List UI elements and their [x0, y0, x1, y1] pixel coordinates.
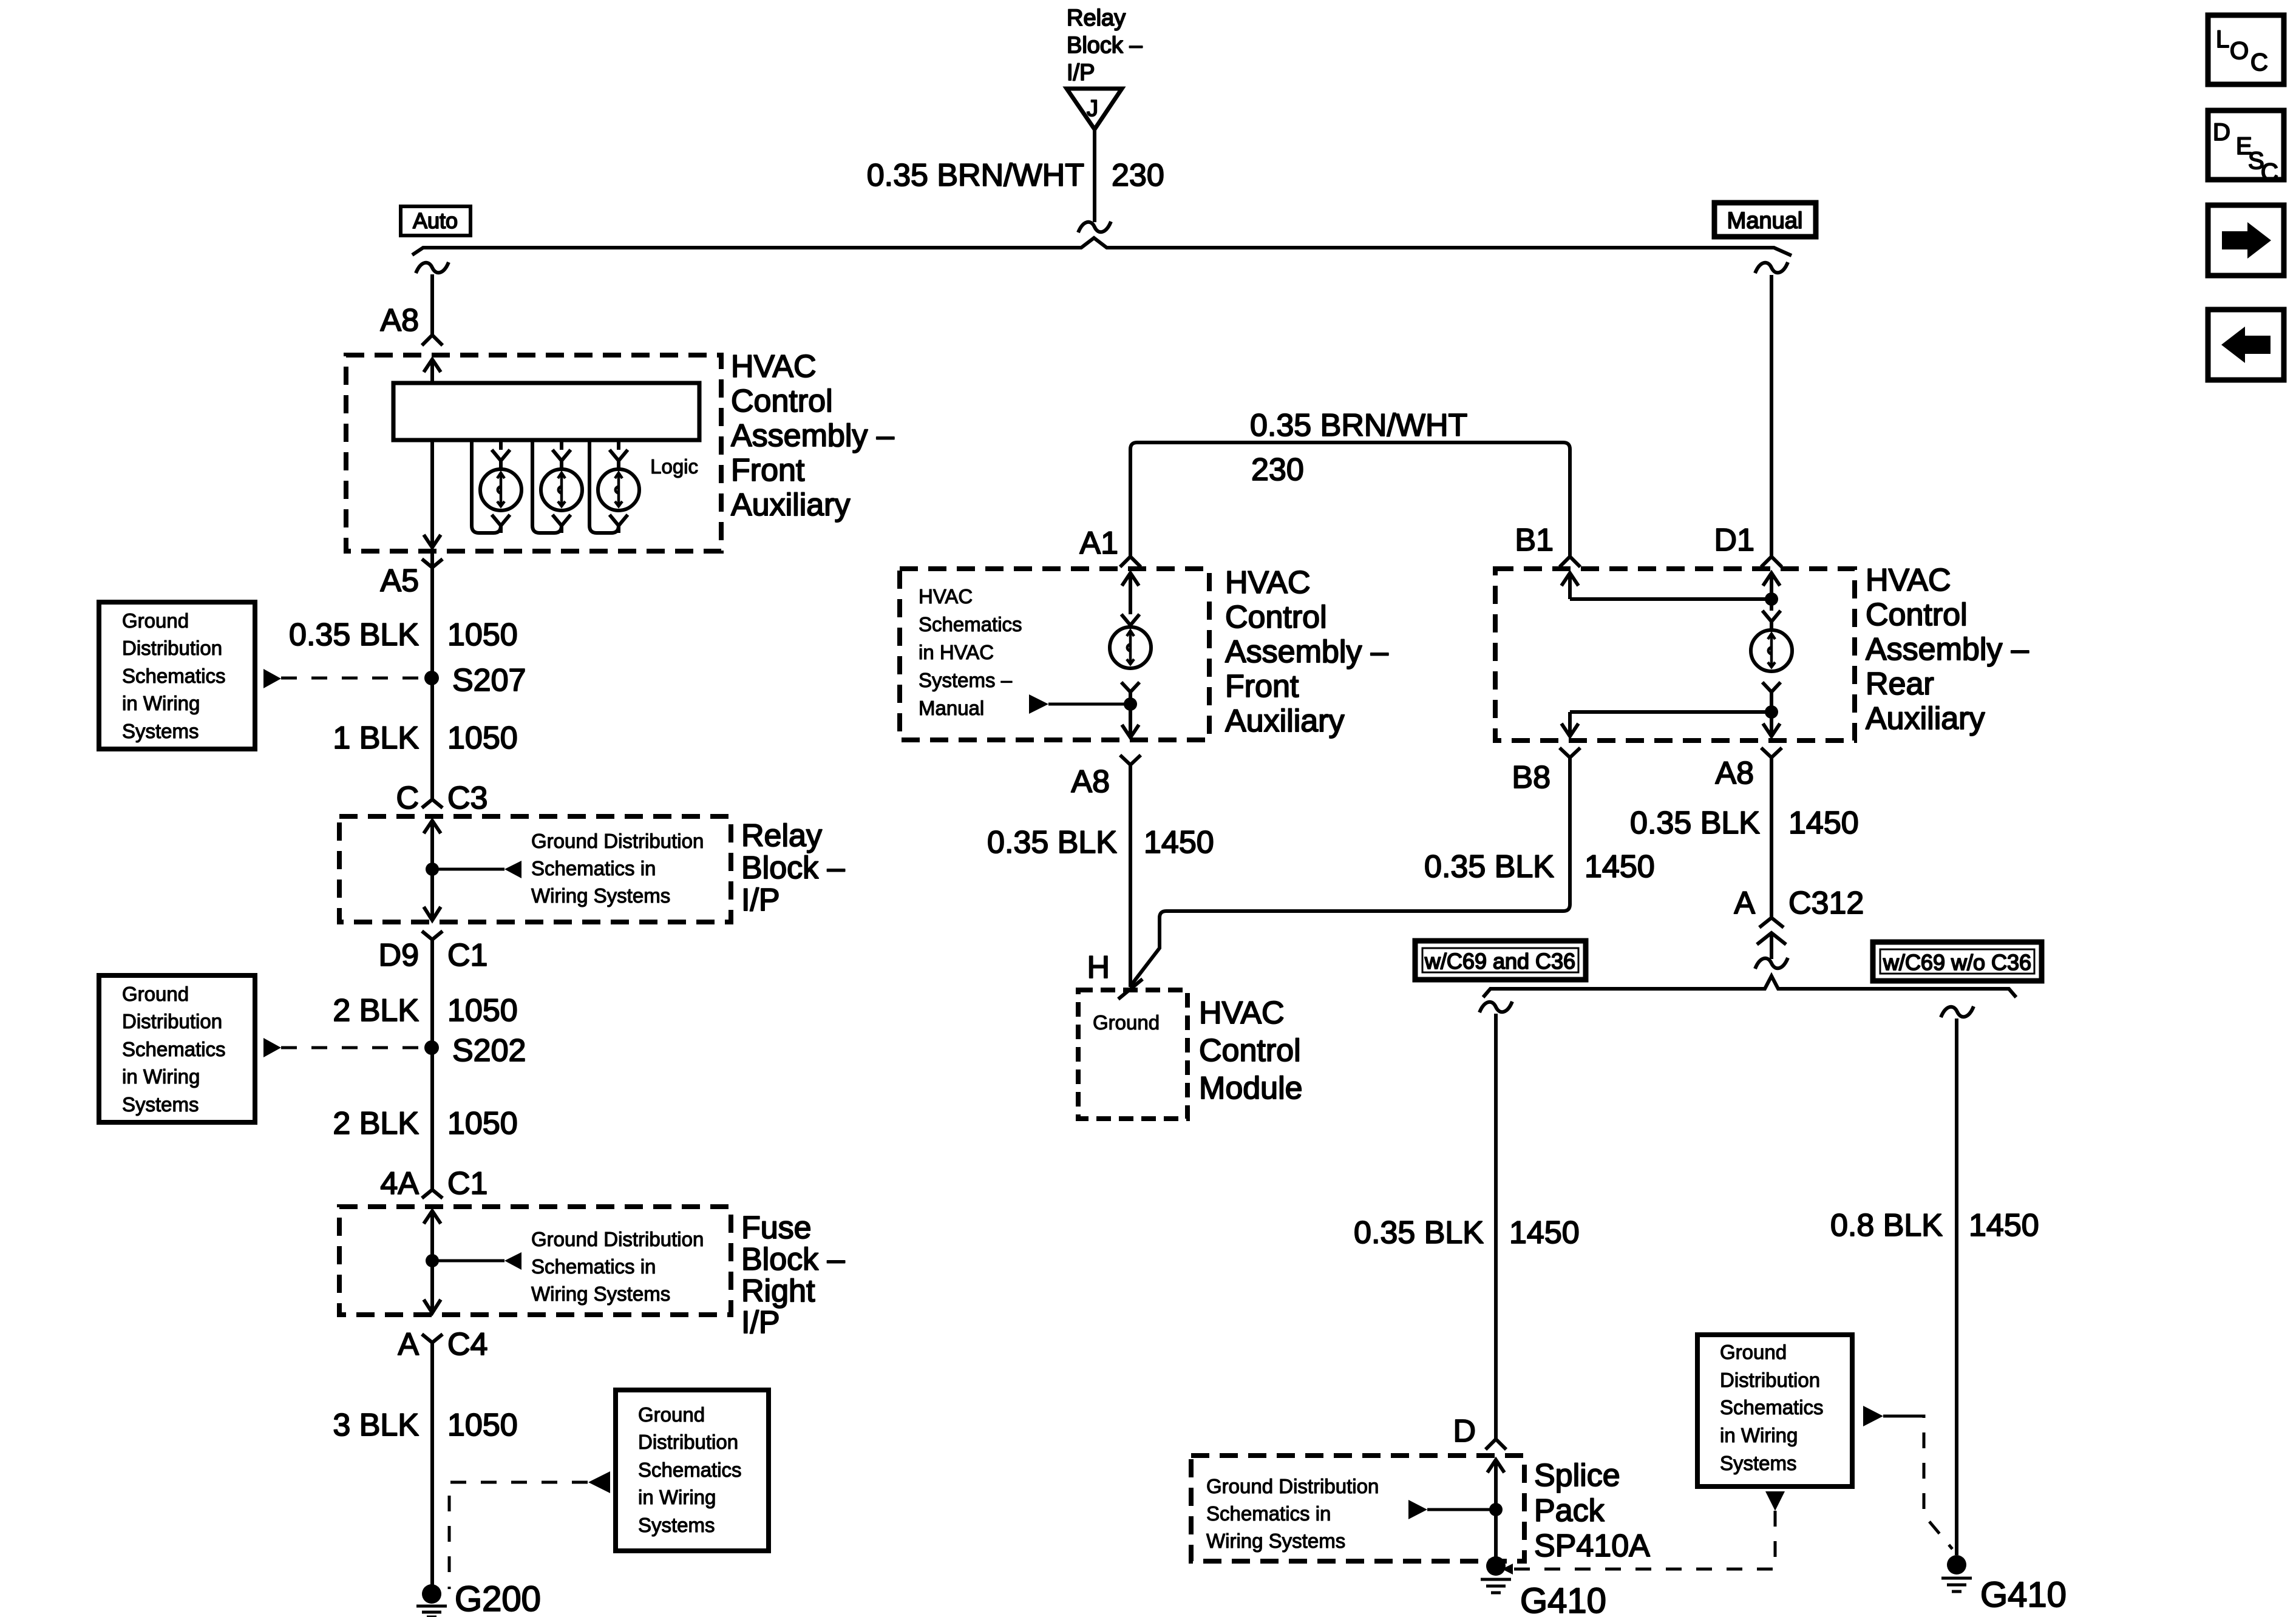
- wire left branch down to HVAC front aux: [430, 274, 434, 335]
- connector 4A C1: [422, 1190, 443, 1198]
- svg-text:in Wiring: in Wiring: [638, 1486, 716, 1508]
- label Fuse Block - Right I/P: [741, 1210, 845, 1340]
- svg-text:w/C69 and C36: w/C69 and C36: [1424, 949, 1575, 974]
- wire to reference arrow: [432, 868, 504, 871]
- icon DESC box: [2208, 110, 2284, 180]
- wire left split branch down to splice pack: [1494, 1014, 1498, 1439]
- junction dot (rear top): [1765, 592, 1778, 606]
- wire label 2 BLK 1050 (second): [333, 1106, 517, 1141]
- svg-text:1450: 1450: [1144, 825, 1214, 860]
- wire A8 rear down to C312: [1770, 758, 1773, 918]
- svg-text:D1: D1: [1714, 523, 1754, 558]
- arrow reference (splice pack): [1408, 1500, 1427, 1519]
- svg-text:I/P: I/P: [741, 883, 780, 918]
- svg-text:D: D: [2213, 119, 2230, 146]
- svg-text:C3: C3: [447, 781, 487, 816]
- wire label 1 BLK 1050: [333, 720, 517, 756]
- svg-text:Distribution: Distribution: [638, 1431, 738, 1453]
- wire A8 down to H: [1129, 765, 1132, 987]
- pin A8 (rear): [1761, 748, 1782, 758]
- svg-text:Schematics: Schematics: [122, 1038, 226, 1060]
- pin A1: [1079, 526, 1118, 561]
- svg-text:0.8 BLK: 0.8 BLK: [1830, 1208, 1943, 1243]
- wire main bus Auto/Manual: [412, 238, 1792, 256]
- svg-text:Logic: Logic: [650, 455, 698, 478]
- icon left arrow box: [2208, 310, 2284, 380]
- reference box Ground Distribution Schematics in Wiring Systems (G200): [616, 1390, 769, 1551]
- svg-text:1050: 1050: [447, 1106, 518, 1141]
- svg-text:Systems: Systems: [122, 720, 199, 742]
- wire lamp to junction: [1129, 692, 1132, 704]
- svg-text:Block –: Block –: [741, 850, 845, 886]
- svg-text:HVAC: HVAC: [1866, 563, 1951, 598]
- svg-text:1050: 1050: [447, 1408, 518, 1443]
- wire Manual branch down to D1: [1770, 275, 1773, 557]
- svg-text:1050: 1050: [447, 720, 518, 756]
- junction dot relay block: [426, 863, 439, 876]
- svg-text:Systems: Systems: [122, 1093, 199, 1116]
- svg-text:Ground: Ground: [122, 983, 189, 1005]
- wire label 2 BLK 1050: [333, 993, 517, 1028]
- svg-text:Systems –: Systems –: [919, 669, 1013, 691]
- wire D1 entry arrow: [1763, 573, 1780, 611]
- svg-text:in HVAC: in HVAC: [919, 641, 994, 663]
- svg-text:Ground: Ground: [638, 1403, 705, 1426]
- label HVAC Control Assembly - Front Auxiliary: [731, 349, 894, 523]
- svg-text:Control: Control: [731, 384, 833, 419]
- connector D9 C1: [422, 931, 443, 940]
- svg-text:Assembly –: Assembly –: [1225, 634, 1388, 670]
- wire reference line to junction: [1048, 703, 1130, 706]
- svg-text:A5: A5: [380, 563, 419, 598]
- svg-text:C312: C312: [1788, 886, 1864, 921]
- wire reference line to splice junction: [1427, 1508, 1496, 1511]
- break symbol right bus branch: [1755, 262, 1788, 273]
- svg-text:Ground: Ground: [1093, 1011, 1160, 1034]
- lamp rear aux: [1751, 630, 1792, 671]
- svg-text:Control: Control: [1225, 600, 1327, 635]
- block control head rectangle: [393, 383, 699, 440]
- svg-text:Block –: Block –: [741, 1242, 845, 1277]
- svg-text:0.35 BRN/WHT: 0.35 BRN/WHT: [1250, 408, 1467, 443]
- svg-text:S207: S207: [452, 663, 526, 698]
- svg-text:4A: 4A: [380, 1166, 419, 1201]
- junction dot (rear bottom): [1765, 705, 1778, 719]
- wire entry arrow at A8 inside box: [424, 359, 441, 383]
- reference box HVAC Schematics in HVAC Systems - Manual (dashed): [900, 569, 1209, 740]
- icon LOC box: [2208, 15, 2284, 84]
- svg-text:Schematics in: Schematics in: [531, 1255, 656, 1278]
- svg-text:C: C: [2261, 159, 2278, 186]
- svg-text:I/P: I/P: [741, 1305, 780, 1340]
- arrow reference (manual box): [1029, 694, 1048, 714]
- svg-text:Ground Distribution: Ground Distribution: [1206, 1475, 1379, 1497]
- svg-text:1 BLK: 1 BLK: [333, 720, 419, 756]
- connector A C4: [422, 1334, 443, 1343]
- svg-text:Right: Right: [741, 1273, 815, 1309]
- wire C312 to break: [1770, 934, 1773, 959]
- svg-text:in Wiring: in Wiring: [122, 1065, 200, 1088]
- svg-text:L: L: [2216, 26, 2229, 53]
- svg-text:Front: Front: [731, 453, 805, 488]
- svg-text:Auto: Auto: [413, 208, 458, 233]
- svg-text:Ground Distribution: Ground Distribution: [531, 1228, 704, 1250]
- svg-text:HVAC: HVAC: [919, 585, 973, 608]
- svg-text:Distribution: Distribution: [1720, 1369, 1820, 1391]
- svg-text:1050: 1050: [447, 617, 518, 653]
- svg-text:Fuse: Fuse: [741, 1210, 812, 1246]
- svg-text:B1: B1: [1515, 523, 1554, 558]
- svg-text:Control: Control: [1866, 597, 1968, 632]
- wire A8 exit arrow (rear): [1763, 712, 1780, 736]
- pin B8: [1560, 748, 1580, 758]
- lamp L3 (illumination bulb): [589, 440, 619, 533]
- svg-text:Block –: Block –: [1067, 33, 1143, 58]
- wire short line from arrow: [1883, 1415, 1910, 1418]
- svg-text:Systems: Systems: [1720, 1452, 1797, 1474]
- wire B1 to D1 crossover: [1570, 597, 1771, 601]
- junction dot (manual box): [1124, 697, 1137, 711]
- lamp front aux (manual): [1110, 627, 1151, 668]
- wire through relay block with arrows: [424, 821, 441, 920]
- splice S207: [424, 671, 439, 685]
- svg-text:O: O: [2230, 38, 2249, 64]
- ground G410 (left): [1486, 1556, 1506, 1576]
- svg-text:Module: Module: [1199, 1071, 1303, 1106]
- junction dot splice pack: [1489, 1503, 1503, 1516]
- component Splice Pack SP410A (dashed box): [1191, 1456, 1524, 1561]
- svg-text:Wiring Systems: Wiring Systems: [531, 1283, 670, 1305]
- svg-text:0.35 BLK: 0.35 BLK: [1424, 849, 1554, 884]
- svg-text:Ground: Ground: [122, 609, 189, 632]
- reference box Ground Distribution Schematics in Wiring Systems (S202): [99, 975, 255, 1122]
- label HVAC Control Module: [1199, 995, 1303, 1106]
- svg-text:Schematics: Schematics: [1720, 1396, 1824, 1419]
- splice S202: [424, 1040, 439, 1055]
- pin H with slash: [1118, 979, 1143, 999]
- svg-text:3 BLK: 3 BLK: [333, 1408, 419, 1443]
- node w/C69 and C36 tag: [1415, 941, 1586, 980]
- svg-text:C: C: [396, 781, 419, 816]
- svg-text:B8: B8: [1512, 760, 1550, 795]
- wire label 3 BLK 1050: [333, 1408, 517, 1443]
- lamp L1 (illumination bulb): [472, 440, 501, 533]
- svg-text:Auxiliary: Auxiliary: [731, 487, 851, 523]
- svg-text:Auxiliary: Auxiliary: [1225, 703, 1345, 739]
- svg-text:G200: G200: [455, 1579, 541, 1617]
- svg-text:Distribution: Distribution: [122, 637, 222, 659]
- svg-text:Assembly –: Assembly –: [731, 418, 894, 453]
- arrow reference (relay block): [504, 861, 521, 878]
- wire B1 entry arrow: [1561, 573, 1578, 599]
- pin D1: [1714, 523, 1754, 558]
- svg-text:1450: 1450: [1969, 1208, 2039, 1243]
- svg-text:Systems: Systems: [638, 1514, 715, 1536]
- svg-text:S202: S202: [452, 1033, 526, 1068]
- wire down arrow exit: [1122, 704, 1139, 737]
- wire internal ground lead with down arrow: [424, 440, 441, 547]
- svg-text:Schematics: Schematics: [638, 1459, 742, 1481]
- wire C4 to G200: [430, 1343, 434, 1585]
- wire dashed reference path to left G410: [1513, 1511, 1775, 1569]
- svg-text:D9: D9: [379, 938, 419, 973]
- wire from J down to bus: [1093, 129, 1096, 222]
- svg-text:Wiring Systems: Wiring Systems: [531, 884, 670, 907]
- svg-text:A8: A8: [1715, 756, 1754, 791]
- pin A8 (front control assembly): [380, 303, 419, 338]
- label HVAC Control Assembly - Front Auxiliary (manual box): [1225, 565, 1388, 739]
- svg-text:0.35 BLK: 0.35 BLK: [987, 825, 1117, 860]
- svg-text:HVAC: HVAC: [731, 349, 817, 384]
- ground G200: [422, 1584, 441, 1604]
- svg-text:D: D: [1453, 1414, 1476, 1449]
- svg-text:2 BLK: 2 BLK: [333, 993, 419, 1028]
- break symbol at J wire bottom: [1078, 222, 1111, 232]
- wire dashed reference path to right G410: [1910, 1416, 1952, 1549]
- component HVAC Control Assembly Rear Auxiliary (dashed box): [1495, 569, 1855, 741]
- svg-text:0.35 BRN/WHT: 0.35 BRN/WHT: [867, 158, 1084, 193]
- svg-text:1450: 1450: [1788, 805, 1859, 841]
- label Relay Block - I/P: [741, 818, 845, 918]
- svg-text:C1: C1: [447, 938, 487, 973]
- node Manual tag: [1714, 203, 1816, 237]
- wire right split branch down to G410: [1955, 1019, 1958, 1555]
- svg-text:Relay: Relay: [741, 818, 822, 853]
- junction dot fuse block: [426, 1254, 439, 1267]
- svg-text:G410: G410: [1520, 1581, 1606, 1617]
- connector chevron below rear lamp: [1762, 682, 1781, 692]
- svg-text:in Wiring: in Wiring: [1720, 1424, 1798, 1446]
- svg-text:H: H: [1087, 950, 1110, 985]
- component Relay Block - I/P (dashed box): [339, 816, 731, 922]
- svg-text:Splice: Splice: [1534, 1458, 1620, 1493]
- break symbol left bus branch: [416, 262, 449, 273]
- wire A1 elbow 0.35 BRN/WHT to B1: [1130, 442, 1570, 557]
- svg-text:C1: C1: [447, 1166, 487, 1201]
- svg-text:Manual: Manual: [919, 697, 984, 719]
- node w/C69 w/o C36 tag: [1873, 942, 2042, 981]
- svg-text:Ground: Ground: [1720, 1341, 1787, 1363]
- pin A8 (below manual box): [1120, 755, 1141, 765]
- svg-text:in Wiring: in Wiring: [122, 692, 200, 714]
- break symbol left split branch: [1479, 1002, 1512, 1012]
- wire entry arrow splice pack: [1487, 1460, 1504, 1558]
- wire dashed reference line to S202: [281, 1046, 424, 1049]
- svg-text:HVAC: HVAC: [1199, 995, 1285, 1031]
- svg-text:SP410A: SP410A: [1534, 1528, 1650, 1564]
- svg-text:A8: A8: [380, 303, 419, 338]
- connector C C3: [422, 799, 443, 808]
- svg-text:Schematics: Schematics: [122, 665, 226, 687]
- svg-text:C4: C4: [447, 1327, 487, 1362]
- svg-text:HVAC: HVAC: [1225, 565, 1311, 600]
- wire to reference arrow (fuse block): [432, 1259, 504, 1263]
- component Fuse Block - Right I/P (dashed box): [339, 1207, 731, 1315]
- svg-text:Front: Front: [1225, 669, 1299, 704]
- svg-text:1450: 1450: [1509, 1215, 1580, 1250]
- arrow reference down (to G410 left): [1765, 1491, 1785, 1511]
- connector J triangle (Relay Block I/P): [1067, 89, 1122, 129]
- wire label 0.35 BRN/WHT 230 (at J): [867, 158, 1164, 193]
- component HVAC Control Module Ground (dashed box): [1078, 990, 1187, 1119]
- wire lamp to junction (rear): [1770, 692, 1773, 712]
- svg-text:Distribution: Distribution: [122, 1010, 222, 1032]
- svg-text:Pack: Pack: [1534, 1493, 1605, 1528]
- reference box Ground Distribution Schematics in Wiring Systems (S207): [99, 602, 255, 749]
- svg-text:Control: Control: [1199, 1033, 1301, 1068]
- arrow to S207: [263, 669, 281, 688]
- svg-text:Manual: Manual: [1727, 208, 1803, 234]
- svg-text:Assembly –: Assembly –: [1866, 632, 2029, 667]
- svg-text:A1: A1: [1079, 526, 1118, 561]
- svg-text:230: 230: [1251, 452, 1304, 487]
- svg-text:0.35 BLK: 0.35 BLK: [1354, 1215, 1484, 1250]
- arrow reference (G200): [588, 1471, 610, 1493]
- wire crossover to B8: [1570, 710, 1771, 714]
- svg-text:G410: G410: [1980, 1575, 2067, 1615]
- break symbol right split branch: [1941, 1006, 1974, 1017]
- label Relay Block - I/P (top): [1067, 5, 1143, 86]
- svg-text:Auxiliary: Auxiliary: [1866, 701, 1985, 736]
- connector chevron above rear lamp: [1762, 611, 1781, 630]
- wire dashed reference line to S207: [281, 677, 424, 680]
- svg-text:2 BLK: 2 BLK: [333, 1106, 419, 1141]
- label Splice Pack SP410A: [1534, 1458, 1650, 1564]
- svg-text:I/P: I/P: [1067, 60, 1095, 86]
- pin A5: [422, 559, 443, 568]
- wire B8 down-left to H: [1132, 758, 1570, 985]
- label HVAC Control Assembly - Rear Auxiliary: [1866, 563, 2029, 736]
- svg-text:Wiring Systems: Wiring Systems: [1206, 1530, 1345, 1552]
- arrow reference right (to G410 right): [1863, 1406, 1883, 1426]
- svg-text:A: A: [398, 1327, 419, 1362]
- svg-text:0.35 BLK: 0.35 BLK: [289, 617, 419, 653]
- svg-text:Rear: Rear: [1866, 666, 1934, 702]
- wire entry arrow A1 inside box: [1122, 573, 1139, 614]
- wire through fuse block with arrows: [424, 1211, 441, 1313]
- component HVAC Control Assembly Front Auxiliary (dashed box): [346, 355, 721, 551]
- arrow small left at dashed end: [1502, 1564, 1513, 1575]
- svg-text:Schematics in: Schematics in: [1206, 1502, 1331, 1525]
- wire A5 to C3: [430, 551, 434, 799]
- svg-text:Schematics: Schematics: [919, 613, 1022, 636]
- connector chevron below lamp: [1121, 682, 1140, 692]
- node Auto tag: [401, 206, 470, 236]
- svg-text:Relay: Relay: [1067, 5, 1126, 31]
- wire dashed reference path to G200: [449, 1482, 588, 1589]
- svg-text:0.35 BLK: 0.35 BLK: [1630, 805, 1760, 841]
- svg-text:A: A: [1734, 886, 1755, 921]
- arrow to S202: [263, 1038, 281, 1057]
- wire label 0.35 BLK 1050: [289, 617, 518, 653]
- svg-text:A8: A8: [1071, 764, 1110, 799]
- svg-text:w/C69 w/o C36: w/C69 w/o C36: [1883, 950, 2031, 975]
- wire split brace w/C69: [1483, 976, 2016, 997]
- svg-text:J: J: [1087, 96, 1098, 121]
- svg-text:Schematics in: Schematics in: [531, 857, 656, 880]
- svg-text:C: C: [2250, 49, 2268, 76]
- svg-text:1050: 1050: [447, 993, 518, 1028]
- svg-text:Ground Distribution: Ground Distribution: [531, 830, 704, 852]
- arrow reference (fuse block): [504, 1252, 521, 1270]
- break symbol above split: [1755, 958, 1788, 969]
- reference box Ground Distribution Schematics in Wiring Systems (G410): [1697, 1335, 1852, 1486]
- ground G410 (right): [1947, 1555, 1966, 1575]
- pin B1: [1515, 523, 1554, 558]
- label Logic: [650, 455, 698, 478]
- wire C1 to fuse block: [430, 940, 434, 1190]
- wire B8 exit arrow: [1561, 712, 1578, 736]
- svg-text:1450: 1450: [1584, 849, 1655, 884]
- connector A C312: [1734, 886, 1864, 921]
- icon right arrow box: [2208, 205, 2284, 276]
- connector chevron above lamp: [1121, 614, 1140, 628]
- lamp L2 (illumination bulb): [532, 440, 562, 533]
- svg-text:230: 230: [1112, 158, 1164, 193]
- pin D (splice pack): [1453, 1414, 1476, 1449]
